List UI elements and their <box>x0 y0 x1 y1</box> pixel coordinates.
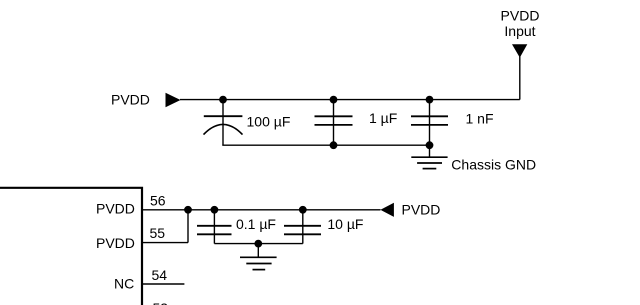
node junction pin56 rail at C5 <box>299 206 307 214</box>
wire pin55 to pin56 rail <box>187 210 189 243</box>
capacitor C1 100 uF top plate <box>204 115 243 117</box>
capacitor C1 100 uF vertical wire <box>222 100 224 146</box>
arrow PVDD net (left-pointing) <box>380 203 394 217</box>
chassis ground symbol <box>411 157 447 168</box>
wire decoupling bottom rail <box>214 243 302 245</box>
pin 55 wire <box>143 242 188 244</box>
IC block U1 outline <box>0 188 142 305</box>
pin 54 wire (NC stub) <box>143 283 184 285</box>
node junction top rail at C3 <box>426 96 434 104</box>
capacitor C3 1 nF top plate <box>411 115 448 117</box>
svg-text:1 µF: 1 µF <box>369 110 397 126</box>
svg-text:PVDD: PVDD <box>96 235 135 251</box>
wire ground stub <box>257 244 259 258</box>
capacitor C5 10 uF vertical wire <box>302 210 304 244</box>
node junction top rail at C2 <box>330 96 338 104</box>
capacitor C5 10 uF bottom plate <box>284 233 321 235</box>
svg-text:53: 53 <box>153 300 169 305</box>
node junction pin56 rail at x188 <box>184 206 192 214</box>
capacitor C3 1 nF bottom plate <box>411 124 448 126</box>
node junction decoupling bottom rail <box>254 240 262 248</box>
svg-text:PVDD: PVDD <box>402 202 441 218</box>
wire bottom rail <box>222 144 429 146</box>
svg-text:PVDD: PVDD <box>111 91 150 107</box>
capacitor C4 0.1 uF top plate <box>197 225 232 227</box>
svg-text:54: 54 <box>152 267 168 283</box>
capacitor C1 100 uF curved plate <box>204 124 243 134</box>
capacitor C2 1 uF vertical wire <box>333 100 335 146</box>
capacitor C3 1 nF vertical wire <box>429 100 431 146</box>
capacitor C2 1 uF bottom plate <box>315 124 353 126</box>
pin 56 wire <box>143 209 381 211</box>
svg-text:56: 56 <box>150 192 166 208</box>
svg-text:PVDD: PVDD <box>96 200 135 216</box>
svg-text:0.1 µF: 0.1 µF <box>236 216 276 232</box>
svg-text:1 nF: 1 nF <box>466 110 494 126</box>
capacitor C2 1 uF top plate <box>315 115 353 117</box>
svg-text:Input: Input <box>504 23 535 39</box>
wire chassis ground stub <box>429 145 431 157</box>
arrow PVDD Input (down-pointing) <box>512 44 527 57</box>
capacitor C4 0.1 uF bottom plate <box>197 233 232 235</box>
capacitor C5 10 uF top plate <box>284 225 321 227</box>
ground symbol <box>240 257 277 269</box>
node junction pin56 rail at C4 <box>211 206 219 214</box>
capacitor C4 0.1 uF vertical wire <box>213 210 215 244</box>
svg-text:55: 55 <box>150 225 166 241</box>
svg-text:10 µF: 10 µF <box>327 216 363 232</box>
node junction bottom rail at C3 <box>426 141 434 149</box>
node junction top rail at C1 <box>219 96 227 104</box>
wire PVDD Input drop <box>519 57 521 100</box>
svg-text:100 µF: 100 µF <box>247 113 291 129</box>
svg-text:Chassis GND: Chassis GND <box>451 156 536 172</box>
svg-text:PVDD: PVDD <box>501 7 540 23</box>
arrow PVDD source (right-pointing) <box>166 93 181 107</box>
wire top rail <box>180 99 520 101</box>
node junction bottom rail at C2 <box>330 141 338 149</box>
svg-text:NC: NC <box>114 275 134 291</box>
